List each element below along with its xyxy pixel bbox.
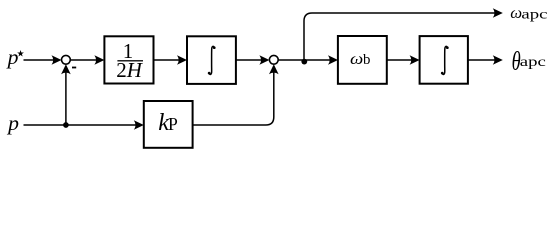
svg-text:P: P	[168, 114, 178, 134]
svg-text:ω: ω	[510, 3, 522, 22]
svg-text:2H: 2H	[116, 58, 144, 82]
svg-text:b: b	[363, 52, 370, 68]
svg-text:apc: apc	[520, 53, 546, 69]
svg-text:p: p	[6, 111, 19, 134]
svg-text:ω: ω	[350, 49, 363, 67]
svg-text:apc: apc	[521, 6, 547, 22]
svg-text:p: p	[6, 46, 19, 69]
